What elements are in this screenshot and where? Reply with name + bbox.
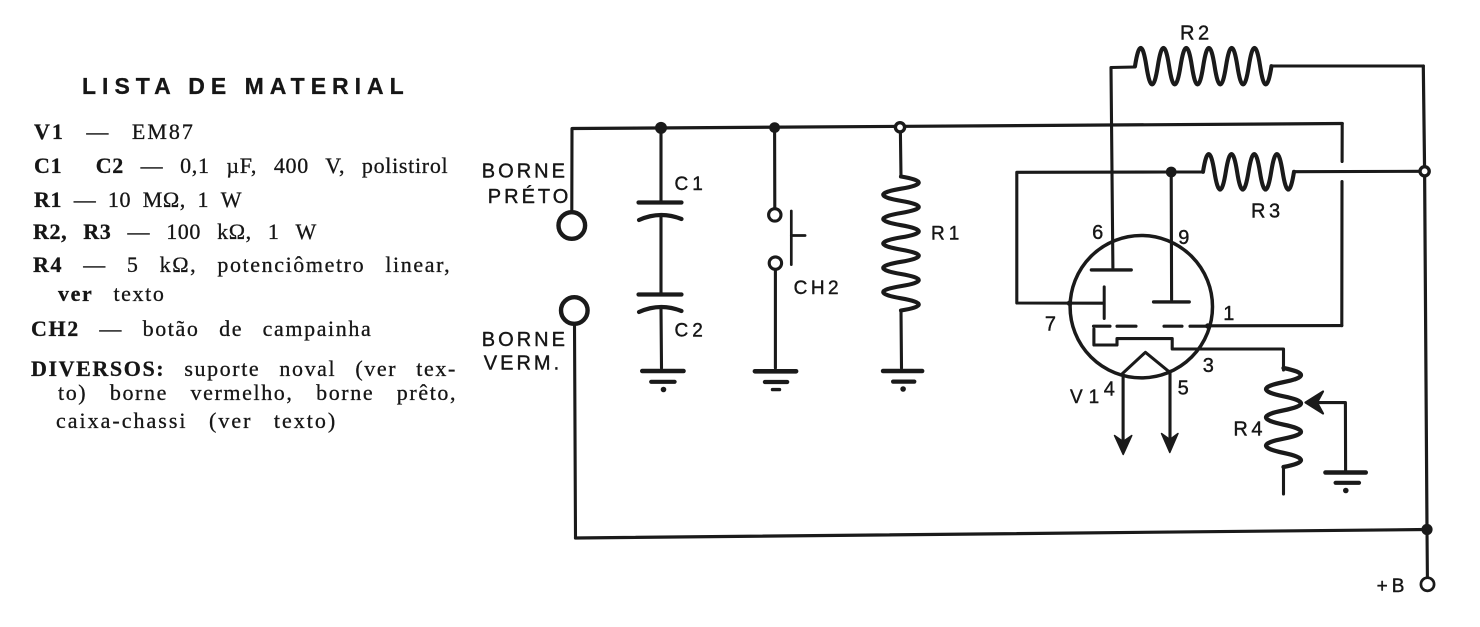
switch CH2 contact bottom: [769, 257, 781, 269]
svg-text:6: 6: [1092, 222, 1103, 244]
svg-text:V1: V1: [1070, 387, 1105, 408]
list line R2 R3: [33, 221, 317, 243]
cathode / target electrode (pin3 path): [1094, 329, 1284, 370]
wire R3 right lead: [1294, 170, 1420, 173]
heater chevron: [1121, 352, 1168, 374]
pin 4 lead: [1122, 375, 1125, 440]
pin 9 plate bar: [1154, 300, 1190, 303]
svg-text:BORNE: BORNE: [482, 161, 568, 183]
list line R4: [33, 254, 451, 276]
list line to) borne: [58, 382, 457, 404]
potentiometer R4: [1266, 368, 1301, 467]
wire C1 branch upper: [659, 128, 662, 202]
capacitor C1: [639, 203, 682, 221]
list line C1 C2: [34, 155, 448, 177]
list line V1: [34, 121, 195, 143]
resistor R2: [1135, 48, 1272, 85]
svg-text:C1: C1: [675, 174, 707, 195]
wire CH2 branch upper: [773, 128, 776, 208]
svg-text:PRÉTO: PRÉTO: [488, 185, 572, 208]
pin 5 arrowhead: [1162, 434, 1179, 453]
node junction R1/top bus: [895, 123, 904, 132]
svg-text:3: 3: [1203, 355, 1214, 377]
pin 4 arrowhead: [1115, 436, 1132, 455]
switch CH2 contact top: [769, 209, 781, 221]
pin 9 wire: [1170, 172, 1174, 300]
wire pin1 horizontal: [1208, 324, 1342, 327]
switch CH2 actuator: [791, 211, 805, 265]
wire top bus: [573, 124, 1343, 129]
svg-text:R4: R4: [1233, 419, 1266, 441]
ground (R4 wiper): [1326, 473, 1366, 494]
svg-text:R3: R3: [1251, 201, 1284, 223]
node junction bottom bus/right bus: [1421, 524, 1432, 535]
list line CH2: [31, 318, 372, 340]
svg-text:CH2: CH2: [794, 278, 843, 299]
pin 6 plate bar: [1091, 268, 1131, 271]
pin 5 lead: [1168, 371, 1171, 437]
ground (CH2): [755, 371, 796, 389]
wire R4 bottom lead: [1282, 467, 1285, 494]
node junction C1/top bus: [655, 122, 667, 134]
tube V1 envelope: [1070, 236, 1212, 378]
list line DIVERSOS: [31, 358, 457, 380]
pin 7 grid bar: [1103, 287, 1106, 319]
terminal +B: [1421, 578, 1434, 591]
wire borne preto stub: [570, 129, 573, 212]
node pin7 entry dot: [1067, 301, 1072, 306]
resistor R3: [1203, 154, 1294, 190]
wire C2 to ground: [659, 308, 663, 368]
wire bottom bus: [576, 530, 1428, 539]
wire grid net: junction to pin7: [1017, 172, 1171, 303]
svg-text:7: 7: [1045, 314, 1056, 336]
svg-text:C2: C2: [675, 321, 707, 342]
wire right bus vertical: [1423, 66, 1427, 530]
wire top bus drop to pin1: [1340, 124, 1343, 326]
svg-text:R2: R2: [1180, 23, 1213, 45]
R4 wiper arrowhead: [1306, 392, 1324, 414]
capacitor C2: [639, 295, 682, 313]
svg-text:VERM.: VERM.: [484, 353, 562, 375]
node junction R3-left/pin9: [1166, 167, 1177, 178]
svg-text:5: 5: [1178, 378, 1189, 400]
list line R1: [34, 189, 242, 211]
node junction CH2/top bus: [769, 122, 780, 133]
wire R2 right lead: [1272, 64, 1424, 67]
wire borne verm stub down: [575, 324, 576, 538]
wire R2 left lead / pin6 drop: [1111, 67, 1135, 268]
wire R1 to ground: [899, 311, 903, 369]
ground (R1): [883, 371, 922, 392]
borne vermelho terminal: [561, 297, 588, 324]
node junction R3/right bus: [1420, 167, 1429, 176]
svg-text:9: 9: [1178, 227, 1189, 249]
node pin1 exit dot: [1205, 323, 1210, 328]
materials list title: [82, 75, 410, 98]
list line caixa-chassi: [56, 410, 337, 432]
resistor R1: [883, 177, 919, 311]
wire CH2 to ground: [774, 270, 777, 369]
list line ver texto: [58, 283, 165, 305]
wire +B stub: [1425, 530, 1429, 578]
svg-text:4: 4: [1104, 379, 1115, 401]
svg-text:BORNE: BORNE: [482, 329, 568, 351]
svg-text:1: 1: [1223, 303, 1234, 325]
ground (C2): [642, 371, 683, 392]
svg-text:R1: R1: [931, 223, 963, 244]
wire C1-C2 middle: [659, 216, 662, 294]
deflection electrode dashes (pin1): [1094, 325, 1209, 328]
borne preto terminal: [559, 212, 586, 239]
wire R1 branch upper: [899, 132, 903, 177]
svg-text:+B: +B: [1377, 576, 1409, 597]
wire R3 left lead: [1171, 170, 1203, 173]
R4 wiper arrow shaft: [1316, 403, 1346, 471]
